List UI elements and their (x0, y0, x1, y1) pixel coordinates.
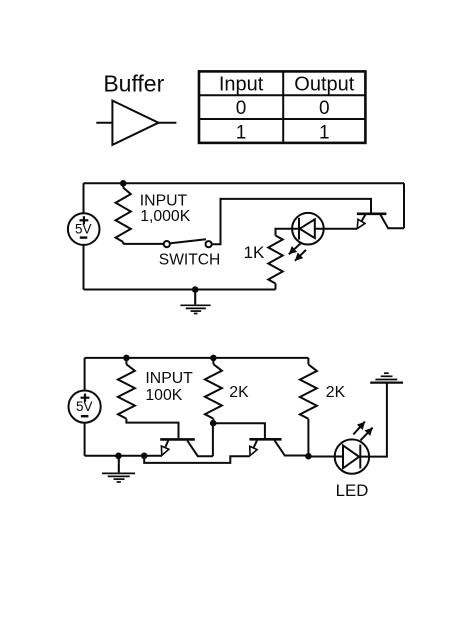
wire left vertical upper (battery + to top rail) (83, 183, 85, 213)
svg-text:2K: 2K (229, 384, 249, 401)
transistor Q3 collector (275, 440, 309, 455)
ground GND3 (flipped, above LED) (370, 373, 403, 382)
wire top rail (bottom circuit) (85, 357, 309, 359)
LED D1 light arrow 1 (289, 244, 301, 255)
V1 plus sign (80, 216, 89, 224)
transistor Q2 collector (187, 440, 213, 456)
wire top rail (middle circuit) (84, 182, 405, 184)
svg-text:Output: Output (294, 73, 354, 95)
transistor Q1 base bar (357, 213, 387, 216)
truth table frame (199, 71, 365, 142)
buffer gate U1 (triangle symbol) (112, 101, 158, 145)
transistor Q3 emitter with arrow (250, 440, 257, 455)
LED D1 triangle (anode) (300, 219, 315, 238)
wire right vertical to collector (403, 183, 405, 228)
transistor Q1 emitter with arrow (357, 215, 365, 229)
junction node R4 bottom (210, 420, 217, 427)
svg-text:INPUT: INPUT (140, 192, 188, 209)
wire R1 bottom to switch (123, 243, 164, 245)
wire LED anode to Q1 emitter (315, 228, 357, 230)
transistor Q2 emitter with arrow (162, 440, 168, 455)
transistor Q2 base bar (160, 438, 195, 441)
V2 minus sign (81, 415, 89, 417)
svg-text:5V: 5V (76, 399, 93, 414)
junction node at ground (192, 286, 199, 293)
junction node at R3 top (123, 355, 130, 362)
junction node at R1 top (120, 180, 127, 187)
svg-text:LED: LED (336, 481, 369, 500)
svg-text:1: 1 (319, 123, 330, 144)
wire left vertical lower (battery2 - to bottom rail) (84, 422, 86, 456)
wire node to LED anode (308, 456, 343, 458)
svg-text:1,000K: 1,000K (140, 208, 191, 225)
junction node at R4 top (210, 355, 217, 362)
resistor R1 INPUT 1,000K (122, 183, 124, 187)
wire left vertical upper (battery2 + to top rail) (84, 358, 86, 391)
switch S1 left terminal (164, 241, 170, 247)
svg-text:1K: 1K (244, 243, 265, 262)
wire bottom rail (middle circuit) (84, 289, 276, 291)
wire left vertical lower (battery - to bottom rail) (83, 245, 85, 290)
LED D1 circle (292, 213, 324, 245)
junction node LED net (305, 453, 312, 460)
svg-text:Input: Input (219, 73, 264, 95)
svg-text:INPUT: INPUT (145, 370, 193, 387)
V2 plus sign (81, 394, 90, 402)
resistor R5 2K (307, 358, 309, 365)
wire LED cathode to 1K resistor (276, 229, 300, 236)
LED D2 light arrow 2 (360, 428, 372, 441)
wire R3 bottom to Q2 base (126, 419, 178, 438)
svg-text:100K: 100K (145, 387, 182, 404)
transistor Q3 base bar (249, 438, 281, 441)
transistor Q1 collector (381, 215, 405, 229)
LED D2 circle (335, 439, 369, 473)
battery V1 5V circle (68, 213, 100, 245)
wire LED cathode to upper ground (360, 383, 387, 457)
wire R5 bottom to collector node (307, 419, 309, 456)
junction node at ground 2 (115, 453, 122, 460)
svg-text:Buffer: Buffer (103, 71, 164, 97)
switch S1 right terminal (206, 241, 212, 247)
svg-text:0: 0 (319, 98, 330, 119)
resistor R2 1K (268, 236, 282, 284)
switch S1 lever (170, 239, 207, 243)
junction node emitter net (141, 453, 148, 460)
wire buffer output (159, 122, 177, 124)
LED D1 cathode bar (298, 218, 300, 240)
wire switch to Q1 base (212, 199, 372, 244)
LED D2 triangle (anode) (343, 445, 359, 468)
ground GND2 (102, 456, 135, 482)
ground GND1 (180, 290, 210, 314)
svg-text:0: 0 (236, 98, 247, 119)
LED D1 light arrow 2 (295, 250, 306, 261)
svg-text:1: 1 (236, 123, 247, 144)
LED D2 light arrow 1 (353, 422, 365, 435)
resistor R3 INPUT 100K (125, 358, 127, 364)
battery V2 5V circle (69, 391, 101, 423)
svg-text:SWITCH: SWITCH (159, 251, 221, 268)
wire bottom rail to Q2 emitter (85, 455, 162, 457)
wire buffer input (96, 122, 112, 124)
wire emitter net staircase to Q3 emitter (144, 456, 249, 463)
wire Q2 collector up to R4 bottom node (212, 423, 214, 456)
svg-text:2K: 2K (326, 384, 346, 401)
LED D2 cathode bar (359, 445, 361, 469)
svg-text:5V: 5V (75, 222, 92, 237)
wire R4 node to Q3 base (213, 423, 265, 438)
V1 minus sign (80, 236, 88, 238)
resistor R4 2K (212, 358, 214, 364)
